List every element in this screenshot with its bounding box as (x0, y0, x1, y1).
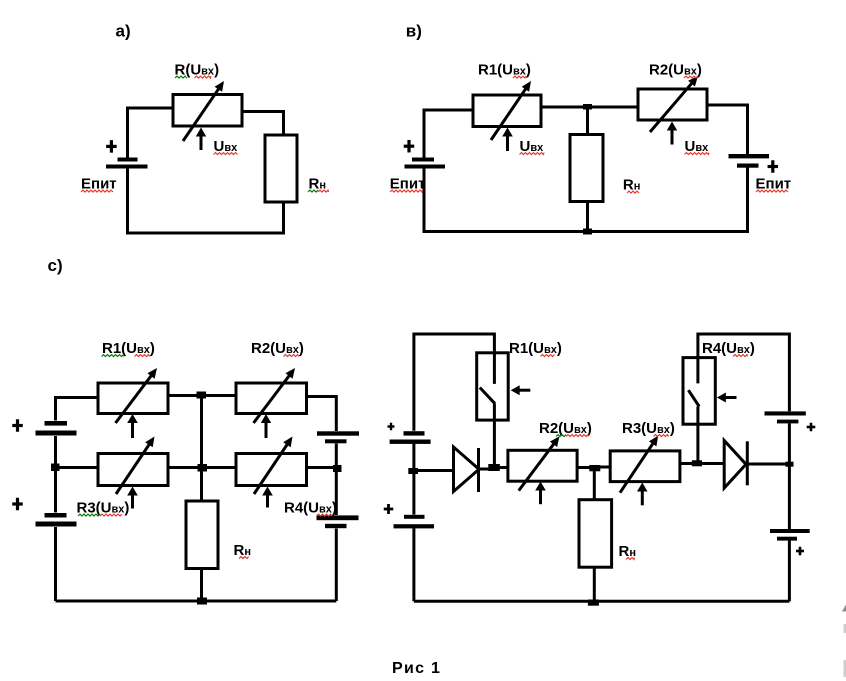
junction node E (circuit d) (488, 464, 500, 471)
wire left node to diode VD1 (circuit d) (414, 469, 454, 472)
svg-text:а): а) (116, 21, 131, 40)
junction node F (circuit d) (589, 465, 600, 471)
variable resistor R4(Uвх) (circuit с) (236, 437, 307, 495)
cropped grey glyph at right edge 3 (844, 660, 846, 677)
label Епит (circuit a) (81, 176, 117, 193)
label Uвх under R1 (circuit в) (520, 138, 545, 155)
plus sign right battery (circuit в) (768, 160, 779, 173)
controlled element R4(Uвх) (circuit d) (683, 358, 715, 425)
label Rн (circuit a) (308, 176, 329, 193)
control arrow into R3 (circuit d) (637, 483, 648, 506)
junction bottom node (circuit с) (197, 598, 207, 605)
diode VD1 (circuit d) (454, 447, 481, 492)
svg-text:Rн: Rн (619, 543, 637, 560)
wire R2 right to right battery (circuit с) (307, 397, 337, 432)
wire node G to diode VD2 (circuit d) (702, 462, 725, 465)
junction left node (circuit d) (408, 468, 418, 474)
label Uвх (circuit a) (214, 138, 239, 155)
battery 2 left (circuit с) (36, 513, 77, 527)
control arrow into R4 (circuit d) (717, 393, 737, 403)
label R3(Uвх) (circuit d) (622, 420, 675, 437)
bottom rail wire (circuit с) (56, 600, 337, 603)
svg-text:Рис 1: Рис 1 (392, 660, 441, 677)
junction node G (circuit d) (692, 460, 702, 466)
wire left battery to R1 left (424, 110, 473, 158)
battery 1 left (circuit d) (390, 431, 431, 444)
wire R2 right to right battery (707, 105, 748, 154)
caption Рис 1 (392, 660, 441, 677)
svg-text:Uвх: Uвх (520, 138, 545, 155)
variable resistor R1(Uвх) (circuit с) (98, 368, 168, 423)
wire R2 right to node F (circuit d) (577, 466, 590, 469)
wire R4 top to top-right rail (circuit d) (698, 334, 790, 411)
battery plus sign (circuit a) (106, 140, 117, 153)
battery Епит right (circuit в) (729, 154, 770, 168)
wire R1 left to left batteries (circuit с) (56, 398, 99, 421)
circuit a label (116, 21, 131, 40)
label Uвх under R2 (circuit в) (685, 138, 710, 155)
wire right battery2 to bottom rail (circuit d) (788, 541, 791, 602)
control arrow into R2 (circuit d) (535, 482, 546, 505)
svg-text:R1(Uвх): R1(Uвх) (102, 340, 155, 357)
battery 1 right (circuit d) (765, 411, 806, 423)
svg-text:Rн: Rн (623, 177, 641, 194)
load resistor Rн (circuit d) (579, 500, 612, 568)
wire node F to Rн top (circuit d) (593, 470, 596, 500)
wire R3 right to node C to R4 left (circuit с) (168, 466, 236, 469)
label Rн (circuit в) (623, 177, 641, 194)
wire node B to R3 left (circuit с) (56, 466, 99, 469)
circuit в label (406, 21, 422, 40)
wire left battery1 to left node (circuit d) (412, 444, 415, 515)
wire R4 bottom to node G (circuit d) (696, 424, 699, 461)
wire R1 right to node and R2 left (541, 106, 638, 109)
variable resistor R(Uвх) (173, 81, 242, 141)
label R2(Uвх) (circuit d) (539, 420, 592, 437)
wire top-left rail to R1 top (circuit d) (414, 334, 495, 431)
junction node C (circuit с) (198, 464, 208, 472)
label Епит right (circuit в) (756, 176, 792, 193)
label R1(Uвх) (circuit d) (509, 340, 562, 357)
junction right node (circuit d) (785, 462, 793, 467)
junction top node (circuit в) (583, 104, 592, 110)
wire Rн bottom to bottom rail (586, 202, 589, 232)
svg-text:Uвх: Uвх (685, 138, 710, 155)
junction node B (circuit с) (51, 464, 60, 472)
cropped grey glyph at right edge 1 (842, 605, 846, 612)
svg-text:с): с) (48, 256, 63, 275)
battery 2 right (circuit с) (317, 515, 359, 528)
plus sign battery2 left (circuit d) (384, 504, 394, 514)
wire left battery1 to node B (circuit с) (54, 436, 57, 513)
label Rн (circuit с) (234, 542, 252, 559)
wire right battery1 to battery2 (circuit с) (335, 444, 338, 516)
wire left battery2 to bottom rail (circuit d) (412, 528, 415, 601)
load resistor Rн (circuit a) (265, 135, 297, 202)
label R1(Uвх) (circuit с) (102, 340, 155, 357)
battery 1 left (circuit с) (36, 421, 77, 436)
wire right battery2 to bottom rail (circuit с) (335, 529, 338, 602)
svg-text:R4(Uвх): R4(Uвх) (284, 500, 337, 517)
control arrow into R1 (circuit d) (511, 385, 531, 395)
battery 1 right (circuit с) (317, 431, 359, 443)
label R(Uвх) (175, 62, 220, 79)
bottom rail wire (circuit в) (424, 168, 748, 232)
wire node A down to Rн (circuit с) (200, 396, 203, 502)
control arrow into R3 (circuit с) (127, 487, 138, 509)
label R4(Uвх) (circuit d) (702, 340, 755, 357)
label Епит left (circuit в) (390, 176, 426, 193)
diode VD2 (circuit d) (724, 441, 749, 489)
plus sign battery1 left (circuit с) (12, 419, 23, 432)
variable resistor R1(Uвх) (circuit в) (473, 81, 541, 140)
load resistor Rн (circuit в) (570, 135, 603, 202)
junction node D (circuit с) (333, 465, 342, 472)
junction node A (circuit с) (197, 392, 207, 399)
control arrow into R1 (circuit в) (502, 128, 513, 152)
plus sign battery1 right (circuit d) (807, 423, 816, 432)
svg-text:R2(Uвх): R2(Uвх) (251, 340, 304, 357)
wire R3 right to node G (circuit d) (680, 462, 693, 465)
wire right battery1 to right node (circuit d) (788, 423, 791, 529)
label R3(Uвх) (circuit с) (77, 500, 130, 517)
junction bottom node (circuit в) (583, 229, 592, 235)
variable resistor R2(Uвх) (circuit в) (638, 76, 707, 132)
wire Rн bottom to bottom rail (circuit с) (200, 569, 203, 602)
label R2(Uвх) (circuit в) (649, 62, 702, 79)
bottom rail wire (circuit d) (414, 600, 790, 603)
label R1(Uвх) (circuit в) (478, 62, 531, 79)
svg-text:Uвх: Uвх (214, 138, 239, 155)
control arrow Uвх into R (196, 128, 206, 151)
variable resistor R2(Uвх) (circuit с) (236, 368, 307, 423)
wire R1 bottom to node E (circuit d) (493, 420, 496, 465)
variable resistor R3(Uвх) (circuit d) (610, 436, 680, 493)
circuit с label (48, 256, 63, 275)
label Rн (circuit d) (619, 543, 637, 560)
control arrow into R2 (circuit с) (261, 414, 271, 438)
plus sign left battery (circuit в) (404, 140, 415, 153)
variable resistor R3(Uвх) (circuit с) (98, 437, 168, 495)
wire resistor R right to load Rн top (242, 112, 284, 136)
svg-text:в): в) (406, 21, 422, 40)
control arrow into R4 (circuit с) (262, 487, 273, 508)
wire left battery2 to bottom rail (circuit с) (54, 527, 57, 601)
variable resistor R2(Uвх) (circuit d) (508, 436, 577, 490)
controlled element R1(Uвх) (circuit d) (477, 353, 509, 420)
wire node to Rн top (586, 107, 589, 135)
load resistor Rн (circuit с) (186, 501, 218, 569)
wire battery+ to resistor R left (128, 108, 174, 158)
plus sign battery1 left (circuit d) (388, 423, 395, 431)
control arrow into R2 (circuit в) (667, 122, 677, 145)
wire diode VD1 to node E (circuit d) (479, 468, 489, 471)
junction bottom node (circuit d) (588, 600, 599, 606)
label R2(Uвх) (circuit с) (251, 340, 304, 357)
svg-text:Rн: Rн (234, 542, 252, 559)
plus sign battery2 left (circuit с) (12, 498, 23, 511)
plus sign battery2 right (circuit d) (796, 547, 804, 556)
battery 2 left (circuit d) (394, 515, 435, 529)
battery 2 right (circuit d) (770, 529, 810, 541)
wire diode VD2 to right node (circuit d) (749, 463, 790, 466)
battery Епит left (circuit в) (405, 158, 446, 169)
wire Rн bottom to bottom rail (circuit d) (593, 567, 596, 601)
wire R1 right to node A and R2 left (circuit с) (168, 394, 236, 397)
control arrow into R1 (circuit с) (127, 414, 138, 438)
wire Rн bottom / bottom return to battery- (128, 169, 284, 234)
battery Епит (circuit a) (106, 158, 148, 169)
label R4(Uвх) (circuit с) (284, 500, 337, 517)
wire R4 right to right node D (circuit с) (307, 466, 337, 469)
cropped grey glyph at right edge 2 (844, 624, 846, 633)
wire node F to R3 left (circuit d) (600, 466, 611, 469)
wire node E to R2 left (circuit d) (498, 466, 509, 469)
